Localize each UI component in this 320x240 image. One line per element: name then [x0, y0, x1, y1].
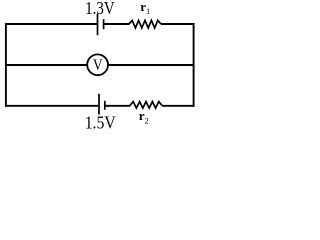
voltmeter V circle — [87, 54, 108, 75]
svg-text:1.3V: 1.3V — [85, 0, 115, 18]
battery B2 1.5V long plate — [98, 94, 100, 115]
battery B2 1.5V short plate — [104, 101, 106, 110]
wire bottom-middle segment — [106, 105, 131, 107]
svg-text:V: V — [93, 57, 103, 74]
wire bottom-left segment — [5, 105, 98, 107]
battery B1 1.3V short plate — [103, 19, 105, 29]
wire right vertical — [193, 23, 195, 107]
wire top-right segment — [161, 23, 195, 25]
wire bottom-right segment — [162, 105, 195, 107]
wire top-left segment — [5, 23, 97, 25]
svg-text:r2: r2 — [139, 108, 149, 125]
resistor r2 zigzag — [130, 102, 162, 109]
svg-text:r1: r1 — [140, 0, 150, 16]
resistor r1 zigzag — [129, 20, 161, 28]
wire top-middle segment — [104, 23, 129, 25]
wire middle-left segment — [5, 64, 87, 66]
svg-text:1.5V: 1.5V — [85, 113, 116, 133]
wire middle-right segment — [108, 64, 194, 66]
wire left vertical — [5, 23, 7, 107]
battery B1 1.3V long plate — [97, 14, 99, 35]
